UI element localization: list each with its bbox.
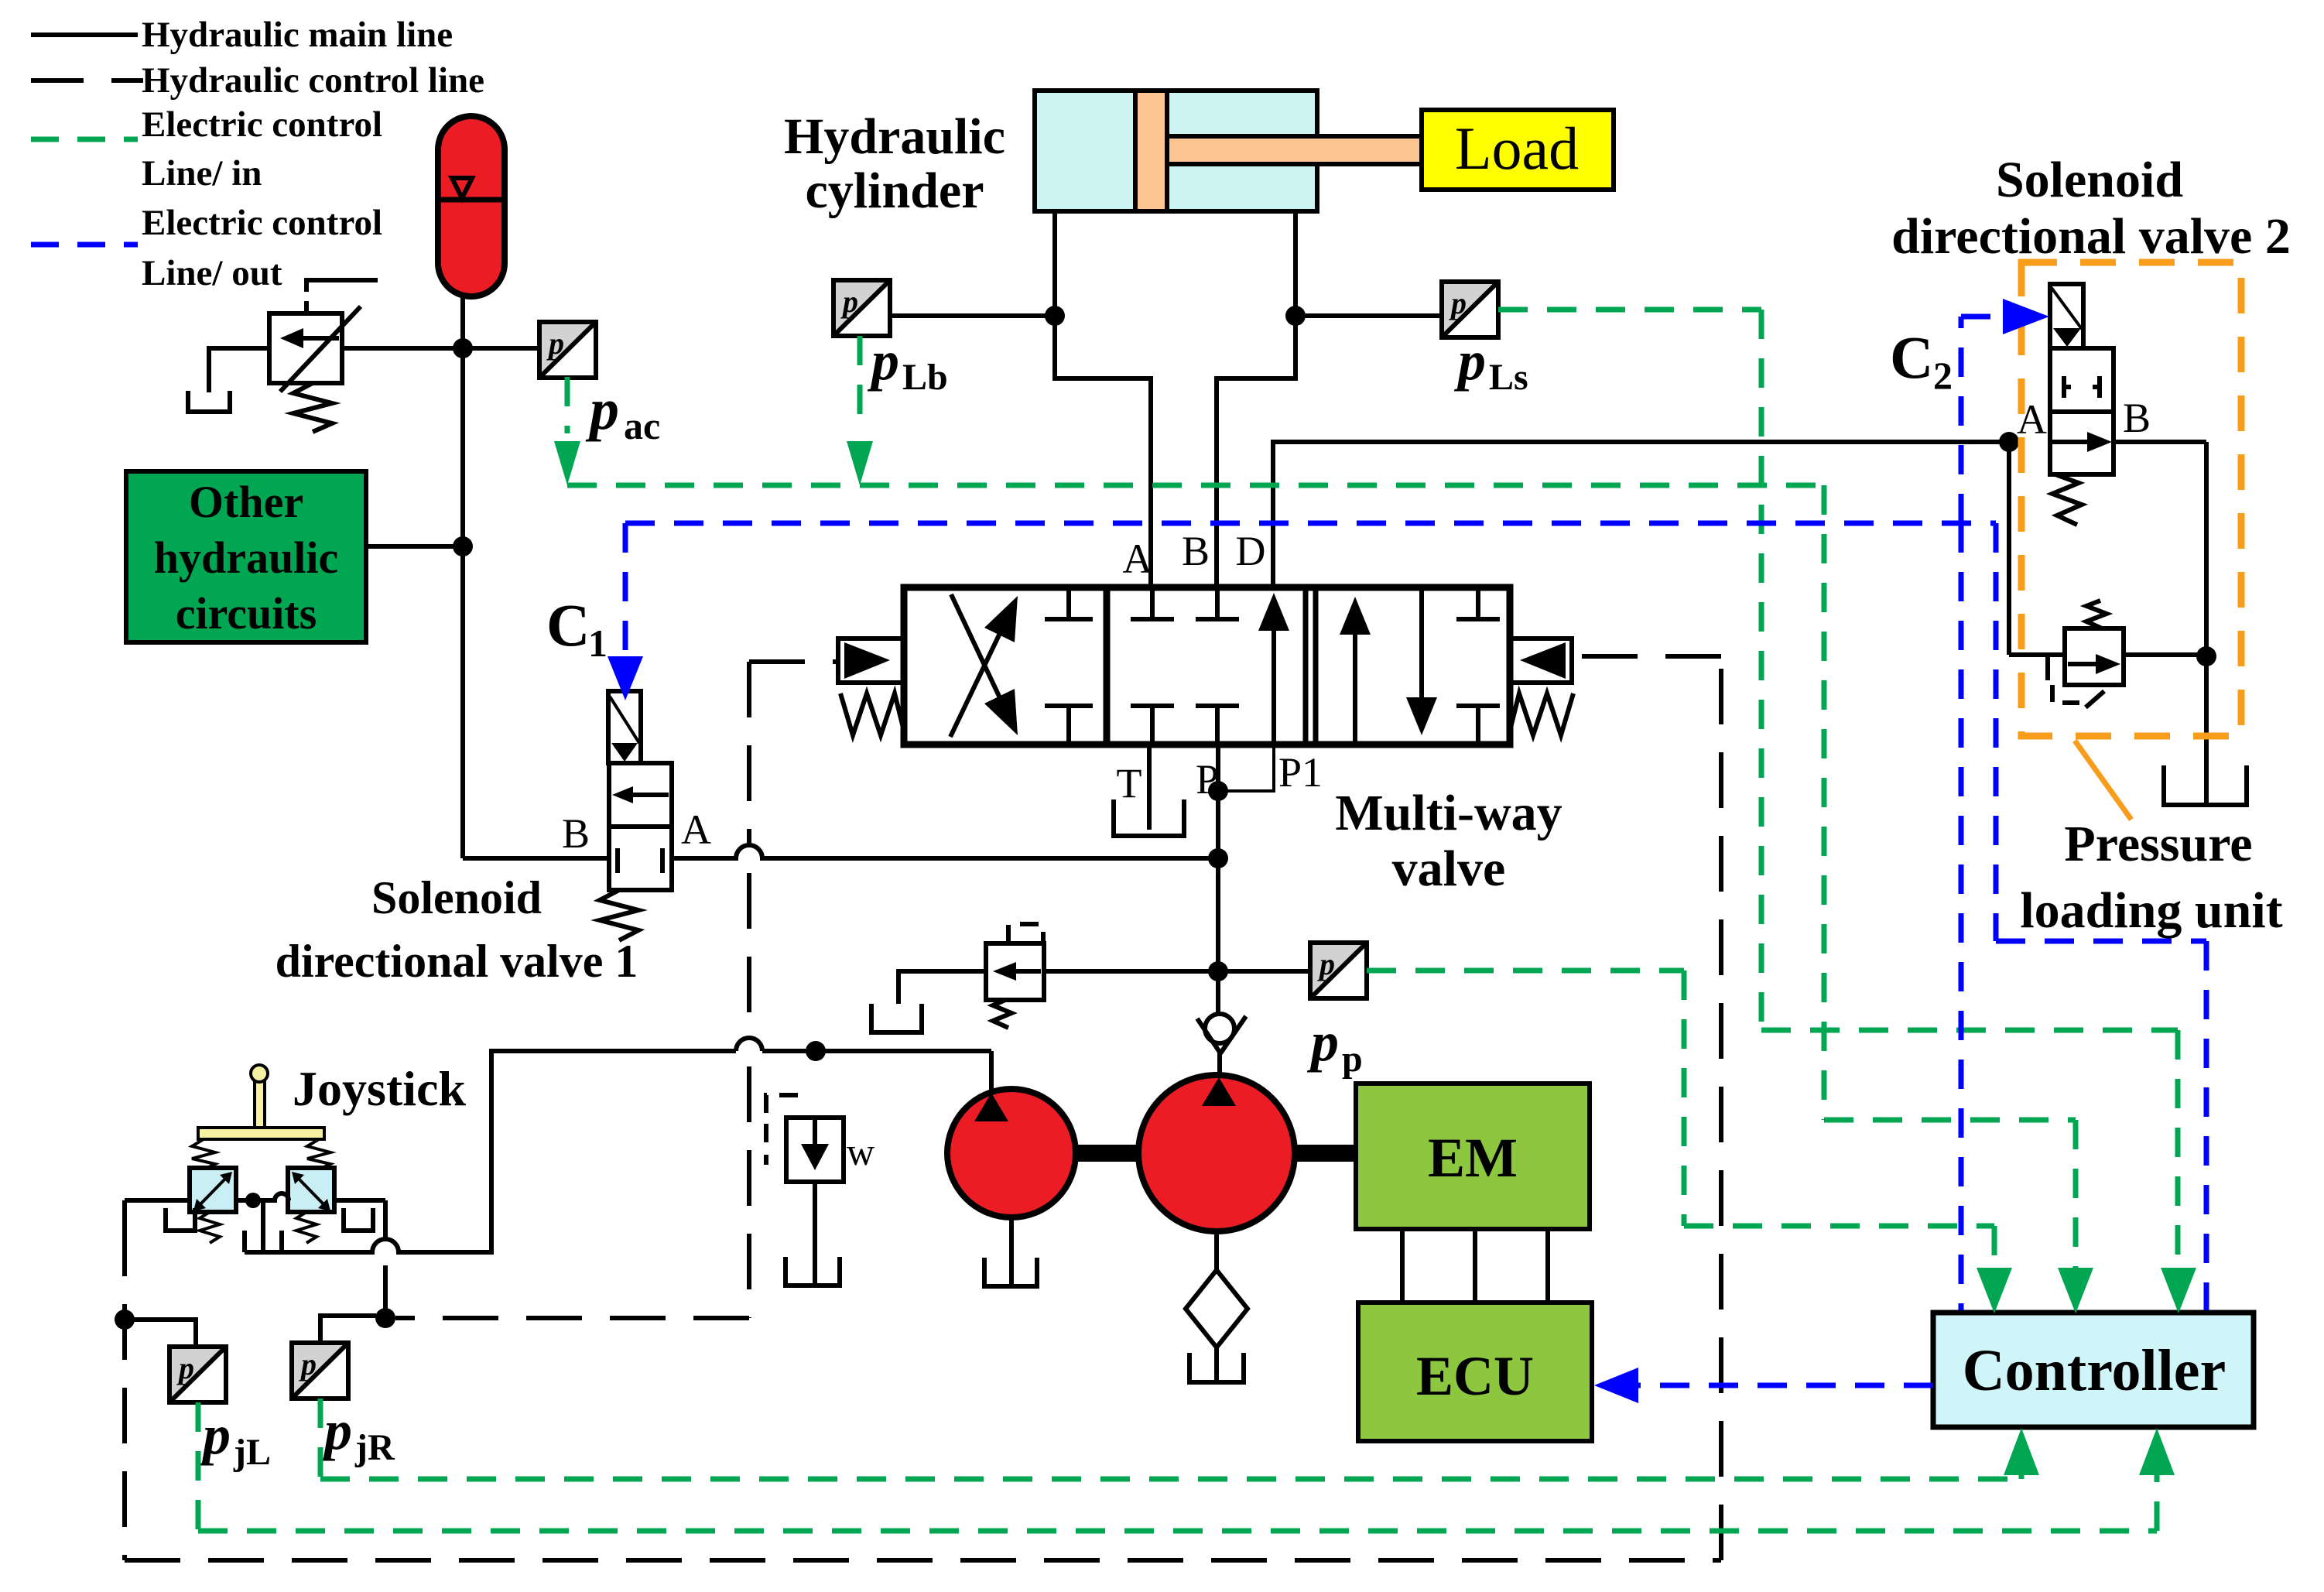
svg-text:Line/ out: Line/ out xyxy=(142,253,282,293)
svg-text:loading unit: loading unit xyxy=(2020,882,2282,939)
svg-text:Line/ in: Line/ in xyxy=(142,153,262,193)
svg-text:Hydraulic: Hydraulic xyxy=(784,108,1005,165)
svg-text:B: B xyxy=(562,810,590,857)
svg-text:p: p xyxy=(320,1399,352,1461)
svg-text:directional valve 1: directional valve 1 xyxy=(276,936,638,987)
svg-text:Electric control: Electric control xyxy=(142,203,382,243)
svg-text:w: w xyxy=(847,1130,874,1173)
svg-text:C: C xyxy=(546,591,590,659)
svg-text:valve: valve xyxy=(1392,841,1506,897)
svg-text:circuits: circuits xyxy=(176,588,317,639)
svg-text:D: D xyxy=(1236,528,1266,574)
svg-text:P1: P1 xyxy=(1278,749,1323,796)
svg-text:Ls: Ls xyxy=(1489,357,1528,398)
svg-text:Other: Other xyxy=(189,477,303,527)
svg-text:Pressure: Pressure xyxy=(2064,816,2252,872)
svg-text:Hydraulic control line: Hydraulic control line xyxy=(142,60,484,101)
svg-text:Joystick: Joystick xyxy=(293,1061,466,1116)
svg-text:Solenoid: Solenoid xyxy=(371,872,542,923)
svg-text:p: p xyxy=(1453,330,1486,392)
svg-text:p: p xyxy=(867,330,899,392)
svg-text:A: A xyxy=(681,806,711,853)
svg-text:EM: EM xyxy=(1428,1127,1518,1189)
svg-text:hydraulic: hydraulic xyxy=(154,532,339,583)
svg-text:A: A xyxy=(1123,536,1153,582)
svg-text:p: p xyxy=(1306,1011,1339,1073)
svg-text:B: B xyxy=(1182,528,1210,574)
svg-text:Solenoid: Solenoid xyxy=(1996,152,2183,208)
svg-text:1: 1 xyxy=(588,621,608,665)
svg-text:p: p xyxy=(1342,1039,1363,1080)
svg-text:C: C xyxy=(1890,324,1933,391)
svg-text:cylinder: cylinder xyxy=(806,163,984,219)
svg-text:Multi-way: Multi-way xyxy=(1335,785,1562,841)
svg-text:Electric control: Electric control xyxy=(142,104,382,145)
svg-text:Hydraulic main line: Hydraulic main line xyxy=(142,15,453,55)
svg-text:Load: Load xyxy=(1455,115,1579,182)
svg-text:directional valve 2: directional valve 2 xyxy=(1891,208,2291,265)
svg-text:ECU: ECU xyxy=(1416,1345,1534,1407)
svg-text:p: p xyxy=(198,1404,231,1466)
svg-text:2: 2 xyxy=(1933,354,1953,397)
svg-text:T: T xyxy=(1117,760,1142,806)
svg-text:p: p xyxy=(585,377,619,442)
svg-text:B: B xyxy=(2123,395,2151,441)
svg-text:jL: jL xyxy=(233,1432,271,1473)
svg-text:jR: jR xyxy=(354,1427,395,1468)
svg-text:Controller: Controller xyxy=(1963,1338,2226,1403)
svg-text:ac: ac xyxy=(624,404,660,447)
svg-text:Lb: Lb xyxy=(902,357,948,398)
